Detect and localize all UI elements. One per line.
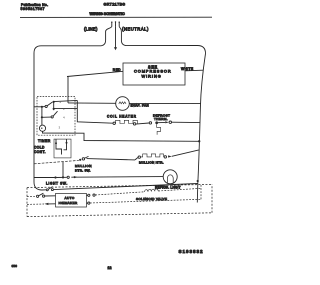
svg-text:LIGHT SW.: LIGHT SW. [46, 181, 68, 185]
wire evap fan row [68, 102, 201, 105]
mullion contact and arrow to neutral bus [164, 150, 199, 158]
mullion heater element [141, 154, 164, 157]
wire vertical node A (feed drop x=68) [67, 77, 69, 103]
svg-text:WIRING SCHEMATIC: WIRING SCHEMATIC [90, 12, 125, 16]
icemaker right lower wire [87, 199, 202, 204]
svg-text:GRT217BG: GRT217BG [104, 2, 126, 6]
svg-text:6/96: 6/96 [12, 264, 18, 268]
mullion feed vertical [62, 162, 64, 178]
cold control box [54, 139, 71, 158]
light switch on bottom bus [46, 187, 53, 191]
ground wire with arrow [114, 27, 117, 51]
mullion element left contact [138, 156, 140, 158]
svg-text:TIMER: TIMER [38, 139, 51, 143]
svg-text:WIRING: WIRING [142, 73, 162, 78]
wire solenoid to right dashed return [158, 188, 201, 191]
timer contact 3-4 (bottom) [42, 111, 58, 118]
timer contact 1-2 (top) [42, 100, 77, 107]
wire timer motor return row [43, 131, 200, 141]
svg-text:MULLION HTR.: MULLION HTR. [139, 160, 164, 164]
svg-text:COIL HEATER: COIL HEATER [107, 115, 137, 119]
wire line-side: plug to left bus [34, 27, 112, 190]
icemaker box text AUTO ICEMAKER [59, 196, 78, 205]
wire RED feed to compressor [67, 71, 123, 76]
header rule [20, 16, 212, 18]
svg-text:S193832: S193832 [179, 249, 204, 254]
optional equipment dashed boundary box [27, 184, 212, 216]
timer motor TM [39, 125, 45, 131]
svg-text:HTR. 5W.: HTR. 5W. [75, 168, 91, 172]
defrost thermostat switch [136, 121, 200, 124]
right bus (neutral, slightly skewed) [197, 54, 205, 203]
svg-text:RED: RED [113, 68, 121, 72]
wire refrigerator light row [34, 176, 163, 179]
svg-text:ICEMAKER: ICEMAKER [59, 201, 78, 205]
label COLD CONT. [34, 146, 46, 154]
junction dot at neutral bus (motor return) [198, 140, 200, 142]
cold control switch [55, 139, 68, 154]
dashed return vertical [200, 185, 202, 199]
icemaker feed wire with switch (top left) [27, 193, 56, 197]
defrost thermostat bracket [157, 124, 161, 135]
timer junction dots [41, 106, 43, 119]
icemaker lower left wire with arrow [27, 203, 56, 205]
icemaker box [56, 194, 87, 208]
svg-text:12: 12 [108, 266, 112, 270]
light row junction dots [54, 176, 64, 178]
label DEFROST THERM. [153, 113, 170, 121]
svg-text:AUTO: AUTO [65, 196, 75, 200]
svg-text:5995317587: 5995317587 [21, 7, 46, 11]
compressor box [123, 63, 185, 85]
icemaker right top wire to solenoid [87, 192, 145, 197]
timer internal second vertical [53, 102, 78, 110]
defrost timer dashed box [37, 97, 75, 136]
timer feed stub from line bus [34, 106, 42, 108]
wire mullion heater row [34, 157, 138, 163]
defrost heater element [113, 120, 137, 125]
compressor box text SEE COMPRESSOR WIRING [134, 64, 172, 78]
svg-text:3: 3 [59, 126, 61, 130]
timer internal vertical wire [41, 107, 43, 125]
evap fan motor circle [116, 97, 130, 111]
timer terminal numbers [59, 100, 66, 129]
junction dot bottom-right [197, 180, 199, 182]
refrigerator light bulb [163, 170, 177, 184]
svg-text:(NEUTRAL): (NEUTRAL) [122, 26, 149, 31]
bottom bus wire (neutral return, skewed) [42, 184, 198, 191]
svg-text:EVAP. FAN: EVAP. FAN [131, 104, 150, 108]
svg-text:CONT.: CONT. [34, 150, 46, 154]
wire WHITE compressor to neutral bus [185, 69, 203, 72]
svg-text:1: 1 [63, 107, 65, 111]
svg-text:THERM.: THERM. [154, 117, 168, 121]
label MULLION HTR. 5W. [75, 164, 92, 172]
svg-text:WHITE: WHITE [181, 67, 194, 71]
wire heater feed drop x=77.3 [77, 100, 113, 123]
power plug prongs [111, 21, 120, 26]
svg-text:(LINE): (LINE) [84, 27, 98, 32]
light row contacts [67, 176, 77, 178]
svg-text:4: 4 [63, 116, 65, 120]
header publication number text [21, 3, 49, 11]
wire neutral-side: plug to right bus [119, 27, 205, 54]
solenoid valve coil [145, 189, 159, 192]
svg-text:REFRIG. LIGHT: REFRIG. LIGHT [155, 185, 181, 189]
mullion row junction and contacts [79, 156, 88, 161]
